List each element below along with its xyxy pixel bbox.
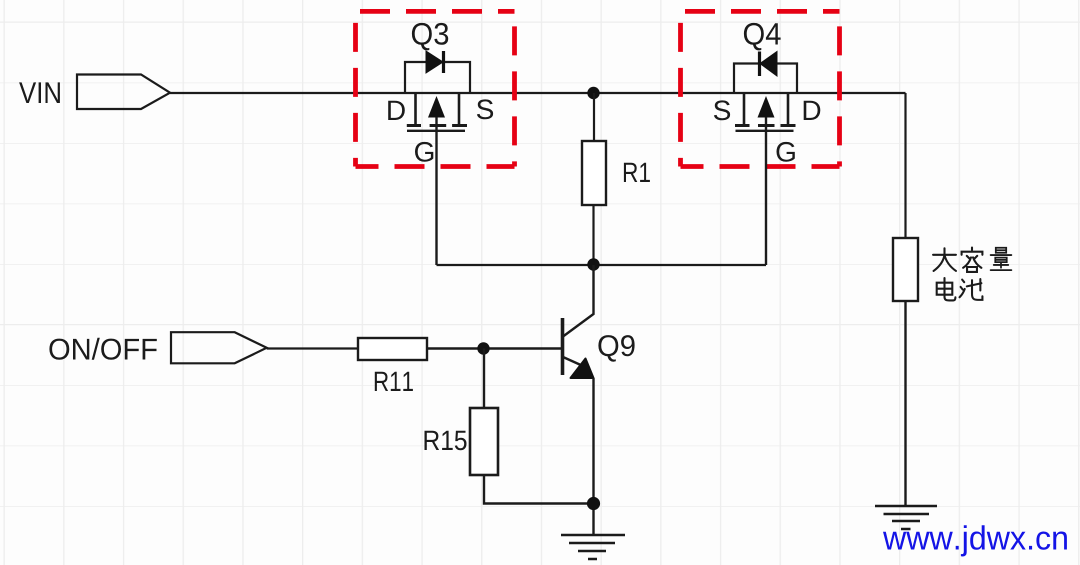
label Q3 <box>412 23 448 51</box>
Q4 body-diode loop wire <box>734 64 797 94</box>
transistor Q9 base bar <box>561 318 565 375</box>
ground (right) <box>875 506 937 529</box>
node base / R15 <box>477 342 489 354</box>
wire R15 bottom to emitter node <box>484 475 594 504</box>
Q3 MOSFET: D stub <box>414 93 417 125</box>
port VIN pentagon <box>77 75 170 110</box>
Q4 MOSFET: gate plate <box>736 130 794 132</box>
label S of Q4 <box>714 100 730 120</box>
node emitter / R15 / ground <box>587 497 600 510</box>
wire R11 to Q9 base <box>427 347 561 349</box>
wire ON/OFF to R11 <box>267 347 358 349</box>
Q4 MOSFET: channel plates <box>735 124 796 127</box>
wire battery to ground <box>904 301 906 506</box>
transistor Q9 emitter arrowhead <box>571 359 594 379</box>
Q4 gate wire <box>765 117 767 265</box>
label 量 <box>991 248 1012 270</box>
label G of Q4 <box>777 142 795 162</box>
label S of Q3 <box>477 99 493 119</box>
watermark www.jdwx.cn <box>883 525 1067 556</box>
Q4 MOSFET: S stub <box>743 93 746 125</box>
label 大 (battery text) <box>933 248 956 271</box>
label G of Q3 <box>415 142 433 162</box>
Q3 MOSFET: body arrow <box>428 96 445 118</box>
Q3 MOSFET: channel plates <box>407 124 467 127</box>
label Q9 <box>598 335 634 362</box>
label R1 <box>624 163 650 182</box>
wire VIN rail <box>170 92 906 94</box>
wire node to R15 <box>483 349 485 409</box>
label VIN <box>19 82 60 103</box>
label D of Q3 <box>388 101 405 120</box>
ground (center) <box>561 535 625 559</box>
Q3 gate wire <box>435 117 437 265</box>
Q3 body-diode loop wire <box>405 62 470 93</box>
battery (大容量电池) body <box>893 238 918 301</box>
label 容 <box>962 248 983 272</box>
label 电 <box>937 278 956 300</box>
Q4 MOSFET: D stub <box>787 93 790 125</box>
label R11 <box>375 372 413 391</box>
label R15 <box>425 431 467 451</box>
Q3 body diode <box>426 51 443 73</box>
node at R1 top <box>587 87 599 99</box>
node gate bus / R1 bottom <box>587 258 599 270</box>
Q4 red dashed box <box>681 11 840 166</box>
Q3 MOSFET: S stub <box>458 93 461 125</box>
label ON/OFF <box>49 338 156 360</box>
wire battery branch <box>904 93 906 238</box>
Q3 red dashed box <box>356 11 515 166</box>
transistor Q9 emitter <box>563 357 583 366</box>
resistor R1 <box>593 93 595 141</box>
port ON/OFF pentagon <box>171 332 267 363</box>
label 池 <box>960 279 983 300</box>
Q4 body diode <box>760 52 777 77</box>
label Q4 <box>744 23 781 51</box>
Q3 MOSFET: gate plate <box>407 130 465 132</box>
wire collector of Q9 <box>563 265 594 337</box>
Q4 MOSFET: body arrow <box>758 96 775 118</box>
label D of Q4 <box>804 101 821 120</box>
resistor R11 <box>358 338 427 360</box>
resistor R15 <box>470 408 498 475</box>
gate bus wire <box>437 264 767 266</box>
wire emitter down <box>592 378 594 535</box>
